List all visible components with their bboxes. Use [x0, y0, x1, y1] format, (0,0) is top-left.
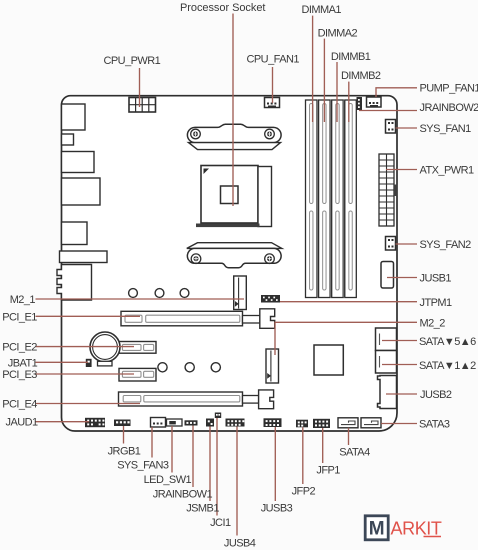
svg-text:JTPM1: JTPM1 [420, 297, 453, 309]
jumper JBAT1 [86, 359, 92, 367]
leader PCI_E3 [36, 373, 135, 375]
DIMM slot DIMMA2 [319, 100, 331, 298]
leader M2_1 [36, 298, 245, 300]
leader JUSB3 [274, 427, 276, 501]
leader JUSB2 [386, 393, 417, 395]
svg-text:SYS_FAN3: SYS_FAN3 [117, 460, 169, 472]
M.2 slot M2_2 [266, 349, 279, 383]
leader CPU_FAN1 [272, 67, 274, 103]
svg-text:Processor Socket: Processor Socket [180, 2, 265, 14]
leader SATA3 [381, 423, 417, 425]
connector JTPM1 (TPM pin header) [261, 295, 280, 303]
svg-text:JRAINBOW1: JRAINBOW1 [153, 488, 213, 500]
svg-text:JFP2: JFP2 [292, 485, 316, 497]
svg-text:JUSB1: JUSB1 [420, 273, 452, 285]
rear IO block 6 [60, 251, 108, 263]
MARKIT logo box [365, 516, 388, 540]
svg-text:SATA4: SATA4 [339, 447, 370, 459]
leader DIMMA1 [312, 16, 314, 122]
leader ATX_PWR1 [386, 169, 417, 171]
leader PUMP_FAN1 [376, 88, 417, 97]
leader JRAINBOW1 [192, 426, 194, 488]
connector JRGB1 (RGB LED header) [114, 420, 131, 427]
connector CPU_FAN1 (4-pin fan header) [265, 98, 280, 108]
leader LED_SW1 [171, 426, 173, 473]
svg-text:JRAINBOW2: JRAINBOW2 [420, 102, 478, 114]
svg-text:SATA▼1▲2: SATA▼1▲2 [419, 360, 476, 372]
connector SYS_FAN1 (4-pin fan header) [386, 120, 396, 134]
battery JBAT1 area [90, 332, 120, 366]
svg-text:SATA3: SATA3 [419, 419, 450, 431]
rear IO block 4 [62, 178, 101, 205]
connector JUSB2 (USB-C header) [378, 376, 397, 409]
rear IO block 2 [62, 134, 74, 145]
svg-text:JAUD1: JAUD1 [6, 417, 39, 429]
gap between DIMMA2 and DIMMB1 [330, 101, 332, 298]
svg-text:JUSB3: JUSB3 [261, 503, 293, 515]
leader JCI1 [216, 418, 218, 516]
screw top-left [191, 129, 201, 139]
connector JUSB1 (USB header) [381, 262, 394, 289]
rear audio jack block [57, 265, 92, 301]
leader JTPM1 [280, 301, 417, 303]
connector JSMB1 (SMBus header) [206, 419, 214, 427]
leader SYS_FAN2 [396, 243, 418, 245]
svg-text:M: M [369, 519, 385, 540]
connector JCI1 (chassis intrusion) [215, 413, 221, 419]
svg-text:JFP1: JFP1 [316, 465, 340, 477]
leader SYS_FAN1 [396, 127, 418, 129]
rear IO block 1 [62, 104, 86, 130]
connector PUMP_FAN1 (4-pin fan header) [367, 97, 382, 107]
svg-text:SYS_FAN2: SYS_FAN2 [420, 239, 472, 251]
switch LED_SW1 [167, 419, 183, 426]
leader JBAT1 [36, 361, 89, 363]
leader SATA4 [348, 428, 350, 445]
CPU socket AM4 [196, 166, 272, 228]
svg-text:SATA▼5▲6: SATA▼5▲6 [419, 336, 476, 348]
leader JUSB4 [236, 427, 238, 536]
leader PCI_E1 [36, 315, 141, 317]
svg-text:ATX_PWR1: ATX_PWR1 [420, 165, 475, 177]
screw bottom-left [191, 254, 201, 264]
svg-text:DIMMB2: DIMMB2 [341, 70, 381, 82]
leader CPU_PWR1 [139, 68, 141, 107]
connector JRAINBOW1 (ARGB header) [185, 420, 198, 425]
rear IO block 3 [62, 152, 95, 173]
leader JRGB1 [123, 426, 125, 444]
connector JUSB4 (USB 2.0 header) [226, 419, 245, 427]
svg-text:M2_2: M2_2 [420, 317, 446, 329]
PCIe slot PCI_E2 (x1) [119, 342, 156, 354]
DIMM slot DIMMB2 [345, 100, 357, 298]
leader DIMMB2 [348, 82, 350, 122]
CPU cooler bottom bracket [187, 243, 282, 268]
connector SYS_FAN2 (4-pin fan header) [386, 237, 396, 251]
leader SATA 1/2 [382, 364, 417, 366]
connector SYS_FAN3 (4-pin fan header) [151, 418, 166, 428]
connector JFP1 (front panel) [313, 419, 330, 428]
SATA ports 1/2 block [376, 351, 397, 374]
connector JRAINBOW2 (3-pin header) [357, 97, 363, 110]
SATA port SATA3 [361, 418, 381, 428]
mounting hole row (x162.5,189.7,215.8 y367.3) [158, 363, 167, 372]
leader JUSB1 [387, 277, 417, 279]
svg-text:LED_SW1: LED_SW1 [144, 474, 192, 486]
PCIe slot PCI_E3 (x1) [119, 368, 156, 381]
leader DIMMB1 [336, 62, 338, 122]
SATA ports 5/6 block [376, 328, 397, 351]
rear IO block 5 [62, 222, 88, 245]
leader JSMB1 [209, 427, 211, 502]
svg-text:ARKIT: ARKIT [391, 519, 442, 539]
leader PCI_E4 [36, 403, 141, 405]
svg-text:JUSB4: JUSB4 [224, 537, 256, 549]
connector JAUD1 (front audio header) [85, 418, 105, 427]
connector JFP2 (front panel) [296, 420, 308, 428]
svg-text:PCI_E2: PCI_E2 [2, 342, 37, 354]
MARKIT logo IT underline [424, 536, 442, 538]
svg-text:PUMP_FAN1: PUMP_FAN1 [420, 83, 478, 95]
svg-text:JRGB1: JRGB1 [108, 445, 141, 457]
SATA port SATA4 [338, 418, 358, 428]
svg-text:PCI_E3: PCI_E3 [2, 369, 37, 381]
leader M2_2 [275, 322, 417, 355]
PCIe slot PCI_E1 (x16) [121, 309, 275, 329]
gap between DIMMA1 and DIMMA2 [317, 101, 319, 298]
leader PCI_E2 [36, 346, 135, 348]
svg-text:SYS_FAN1: SYS_FAN1 [420, 123, 472, 135]
chipset [314, 345, 343, 375]
gap between DIMMB1 and DIMMB2 [343, 101, 345, 298]
svg-text:CPU_FAN1: CPU_FAN1 [247, 54, 300, 66]
svg-text:PCI_E4: PCI_E4 [2, 399, 37, 411]
connector JUSB3 (USB 2.0 header) [264, 418, 282, 427]
mounting hole row (x133,159.5,184.5 y293) [129, 289, 138, 298]
DIMM slot DIMMB1 [332, 100, 344, 298]
motherboard outline [62, 96, 398, 431]
leader DIMMA2 [323, 39, 325, 122]
svg-text:JBAT1: JBAT1 [8, 357, 38, 369]
svg-text:JCI1: JCI1 [210, 517, 231, 529]
connector ATX_PWR1 (24-pin power, 2x12 grid) [379, 154, 397, 226]
leader JFP1 [322, 428, 324, 463]
svg-text:PCI_E1: PCI_E1 [2, 311, 37, 323]
M.2 slot M2_1 [234, 276, 247, 310]
PCIe slot PCI_E4 (x16) [119, 390, 274, 409]
leader Processor Socket [232, 14, 234, 207]
svg-text:DIMMA2: DIMMA2 [318, 28, 358, 40]
leader SATA 5/6 [382, 340, 417, 342]
svg-text:JSMB1: JSMB1 [186, 503, 219, 515]
screw top-right [265, 129, 275, 139]
leader JFP2 [302, 427, 304, 484]
svg-text:M2_1: M2_1 [10, 294, 36, 306]
connector CPU_PWR1 (8-pin EPS) [129, 98, 156, 113]
screw bottom-right [265, 254, 275, 264]
svg-text:CPU_PWR1: CPU_PWR1 [104, 55, 161, 67]
svg-text:JUSB2: JUSB2 [420, 389, 452, 401]
svg-text:DIMMA1: DIMMA1 [302, 4, 342, 16]
DIMM slot DIMMA1 [306, 100, 318, 298]
svg-text:DIMMB1: DIMMB1 [331, 51, 371, 63]
leader JRAINBOW2 [359, 110, 417, 112]
CPU cooler top bracket [187, 124, 281, 149]
leader JAUD1 [36, 421, 90, 423]
leader SYS_FAN3 [151, 427, 153, 458]
